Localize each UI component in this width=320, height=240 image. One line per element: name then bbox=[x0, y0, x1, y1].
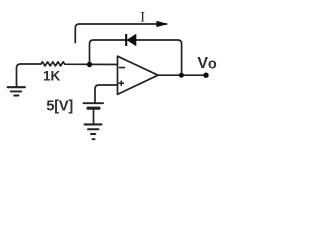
svg-text:V: V bbox=[197, 55, 208, 72]
svg-text:1K: 1K bbox=[43, 68, 61, 83]
svg-text:o: o bbox=[208, 57, 217, 73]
svg-text:I: I bbox=[140, 10, 145, 26]
svg-text:5[V]: 5[V] bbox=[46, 99, 73, 115]
